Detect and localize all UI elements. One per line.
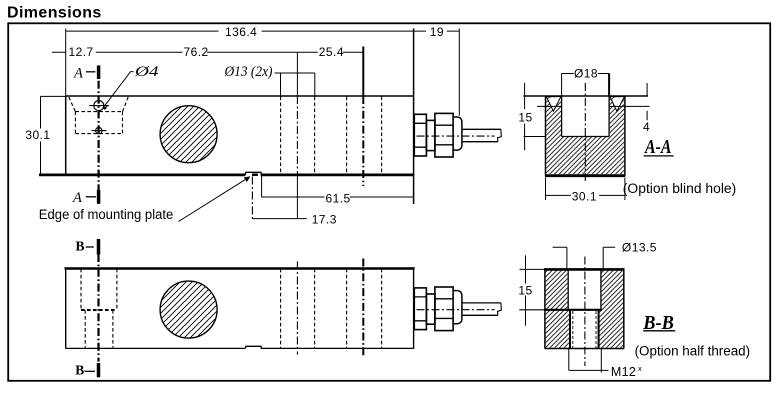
svg-text:19: 19 xyxy=(430,25,444,39)
label Edge of mounting plate with leader arrow xyxy=(39,176,251,222)
svg-text:4: 4 xyxy=(643,120,650,134)
svg-text:12.7: 12.7 xyxy=(69,45,94,59)
section A-A centerline xyxy=(584,83,586,181)
svg-text:(Option half thread): (Option half thread) xyxy=(635,344,751,359)
label O13 (2x) with leader to hole edges xyxy=(224,64,315,96)
section mark A top xyxy=(73,66,99,82)
dimension O13.5 xyxy=(553,240,657,269)
connector centerline bottom view xyxy=(417,309,495,311)
section mark B top xyxy=(76,238,99,254)
dimension 76.2 xyxy=(99,45,298,59)
hatched circle top view xyxy=(160,106,217,163)
hidden blind-hole dashed outline top view xyxy=(69,97,128,134)
svg-text:A: A xyxy=(73,66,83,82)
svg-text:15: 15 xyxy=(518,111,532,125)
centerline hole2 bottom view (thick dashed) xyxy=(362,259,364,357)
svg-text:61.5: 61.5 xyxy=(326,191,351,205)
label O4 with leader xyxy=(103,64,159,110)
label M12 with extension lines xyxy=(569,349,642,379)
dimension 136.4 xyxy=(66,25,414,96)
notch top view (edge of mounting plate) xyxy=(245,172,261,175)
dimension 15 (A-A) xyxy=(518,83,545,151)
hidden O13 hole edges dashed bottom view xyxy=(281,269,382,348)
dimension 19 xyxy=(414,25,460,115)
svg-text:Dimensions: Dimensions xyxy=(7,5,102,22)
dimension 15 (B-B) xyxy=(518,255,532,325)
dimension 17.3 xyxy=(252,177,336,227)
svg-text:A: A xyxy=(72,190,82,206)
dimension O18 xyxy=(562,67,610,96)
section B-B centerline xyxy=(584,257,586,367)
svg-text:25.4: 25.4 xyxy=(319,45,344,59)
svg-text:M12: M12 xyxy=(611,365,636,379)
body outline top view xyxy=(39,29,414,205)
centerline hole1 top view xyxy=(296,52,298,218)
section B-B outline xyxy=(520,269,625,348)
section mark B bottom xyxy=(75,363,98,378)
hidden O13 hole edges dashed top view xyxy=(281,97,382,175)
svg-text:30.1: 30.1 xyxy=(572,190,597,204)
svg-text:Ø13.5: Ø13.5 xyxy=(622,240,657,254)
dimension 30.1 left xyxy=(25,96,66,175)
svg-text:Ø4: Ø4 xyxy=(134,64,159,80)
svg-text:17.3: 17.3 xyxy=(312,212,337,226)
section B-B hatched walls xyxy=(546,270,624,348)
svg-text:136.4: 136.4 xyxy=(225,25,257,39)
svg-text:30.1: 30.1 xyxy=(25,128,50,142)
hatched circle bottom view xyxy=(160,281,217,338)
dimension 30.1 (A-A) xyxy=(546,178,625,204)
section line A-A (vertical thick dashed) xyxy=(97,66,99,204)
label B-B underlined xyxy=(642,312,675,334)
dimension 61.5 xyxy=(262,176,414,206)
svg-text:B: B xyxy=(75,363,84,378)
section B-B thread lines M12 xyxy=(570,310,599,348)
svg-text:Ø18: Ø18 xyxy=(574,67,598,81)
cable gland connector bottom view xyxy=(414,287,501,331)
centerline hole2 top view (thick dashed) xyxy=(362,47,364,187)
dimension 4 (A-A) xyxy=(643,83,650,134)
notch bottom view xyxy=(245,346,261,348)
svg-text:76.2: 76.2 xyxy=(184,45,209,59)
section A-A hatched walls xyxy=(546,97,624,175)
hole O4 circle with cross ticks xyxy=(89,101,109,134)
body outline bottom view xyxy=(65,267,415,348)
svg-text:B: B xyxy=(76,238,85,253)
section line B-B (vertical thick dashed) xyxy=(97,254,99,362)
label A-A underlined xyxy=(643,136,673,158)
connector centerline top view xyxy=(417,135,495,137)
svg-text:15: 15 xyxy=(518,284,532,298)
cable gland connector top view xyxy=(414,113,501,157)
svg-text:x: x xyxy=(638,364,642,373)
dimension 12.7 xyxy=(52,45,99,59)
section mark A bottom xyxy=(72,190,99,206)
svg-text:Edge of mounting plate: Edge of mounting plate xyxy=(39,207,174,222)
section A-A V-notches (white) xyxy=(546,97,624,112)
section A-A outline xyxy=(524,96,649,176)
hidden counterbore dashed lines bottom view xyxy=(81,269,117,348)
centerline hole1 bottom view xyxy=(296,262,298,355)
svg-text:Ø13 (2x): Ø13 (2x) xyxy=(224,64,273,80)
svg-text:(Option blind hole): (Option blind hole) xyxy=(623,181,737,196)
svg-text:A-A: A-A xyxy=(643,136,671,158)
section B-B bore shoulder line xyxy=(519,309,602,311)
dimension 25.4 xyxy=(297,45,363,59)
section A-A notch depth line (4 mm) xyxy=(537,105,650,107)
